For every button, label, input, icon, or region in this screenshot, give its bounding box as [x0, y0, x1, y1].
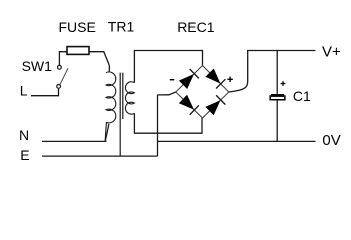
wire bridge plus output to V+ rail — [229, 51, 316, 93]
wire capacitor top lead — [276, 51, 278, 94]
svg-text:N: N — [19, 127, 29, 143]
svg-text:REC1: REC1 — [177, 19, 215, 35]
wire L lead — [31, 89, 59, 96]
diode lower-left — [180, 95, 199, 114]
svg-text:0V: 0V — [322, 132, 340, 149]
capacitor C1 negative plate cup — [270, 95, 285, 100]
wire secondary bottom to bridge bottom — [134, 113, 202, 133]
svg-text:C1: C1 — [293, 88, 311, 104]
switch SW1 lever — [60, 68, 68, 84]
wire 0V rail — [158, 140, 316, 142]
wire E lead — [42, 155, 158, 157]
capacitor C1 positive plate — [271, 94, 284, 97]
transformer TR1 primary winding — [106, 72, 116, 123]
wire secondary top to bridge top — [134, 51, 202, 83]
switch SW1 contact circles — [57, 65, 62, 88]
diode upper-right — [206, 69, 225, 88]
rectifier REC1 diamond — [176, 66, 229, 119]
transformer TR1 core line extended to earth — [119, 73, 121, 157]
rectifier minus sign — [170, 79, 175, 81]
svg-text:L: L — [20, 83, 28, 99]
transformer TR1 secondary winding — [125, 82, 134, 114]
rectifier plus sign — [227, 77, 232, 82]
wire switch to fuse — [59, 52, 66, 65]
fuse FUSE body — [67, 47, 89, 55]
wire bridge minus output to earth vertical — [158, 92, 176, 156]
svg-text:E: E — [20, 147, 29, 163]
transformer TR1 primary bottom lead — [105, 123, 106, 142]
wire N lead — [42, 124, 109, 141]
diode lower-right — [206, 95, 225, 114]
wire fuse to transformer primary — [89, 52, 109, 72]
svg-text:FUSE: FUSE — [59, 19, 96, 35]
svg-text:TR1: TR1 — [108, 19, 135, 35]
diode upper-left — [180, 69, 199, 88]
wire capacitor bottom lead — [276, 100, 278, 141]
capacitor C1 plus sign — [281, 81, 286, 86]
svg-text:SW1: SW1 — [22, 58, 53, 74]
transformer TR1 core line — [122, 73, 124, 119]
svg-text:V+: V+ — [322, 43, 341, 60]
